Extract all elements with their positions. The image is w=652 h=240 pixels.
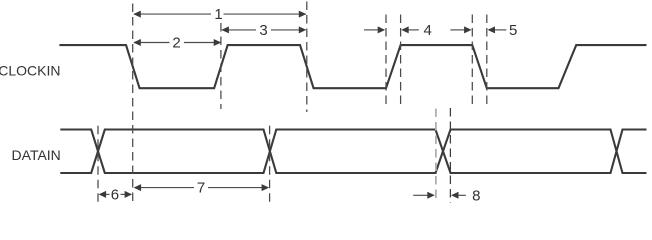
node dashed ref line fall3 end [486,15,488,109]
dimension 4 clock rise time [364,29,378,31]
svg-text:6: 6 [111,187,119,204]
node dashed ref line rise2 start [385,15,387,109]
node dashed ref line rise2 end [400,15,402,109]
svg-text:1: 1 [214,6,222,23]
dimension 2 clock low width [134,42,221,44]
svg-text:2: 2 [172,35,180,52]
node dashed ref line rise1 mid [220,23,222,109]
wire DATAIN rail A [60,130,646,174]
wire DATAIN rail B [60,130,646,174]
node dashed ref line data X3 start (gray) [435,109,437,204]
node dashed ref line data X1 center [97,126,99,204]
dimension 7 data valid [141,187,263,189]
node dashed ref line data X3 end [449,108,451,203]
svg-text:CLOCKIN: CLOCKIN [0,63,61,79]
node dashed ref line fall1 mid [132,4,134,204]
node dashed ref line data X2 center [269,126,271,203]
node dashed ref line fall3 start [471,15,473,109]
dimension 5 clock fall time [450,29,464,31]
svg-text:4: 4 [424,22,432,39]
dimension 1 clock period [134,13,306,15]
dimension 3 clock high width [222,29,306,31]
node dashed ref line fall2 mid [306,2,308,113]
svg-text:7: 7 [197,180,205,197]
svg-text:3: 3 [259,22,267,39]
dimension 6 data setup [106,193,126,195]
wire CLOCKIN waveform [59,45,646,88]
svg-text:5: 5 [509,22,517,39]
svg-text:8: 8 [472,187,480,204]
dimension 8 data transition [413,194,428,196]
svg-text:DATAIN: DATAIN [12,147,61,163]
